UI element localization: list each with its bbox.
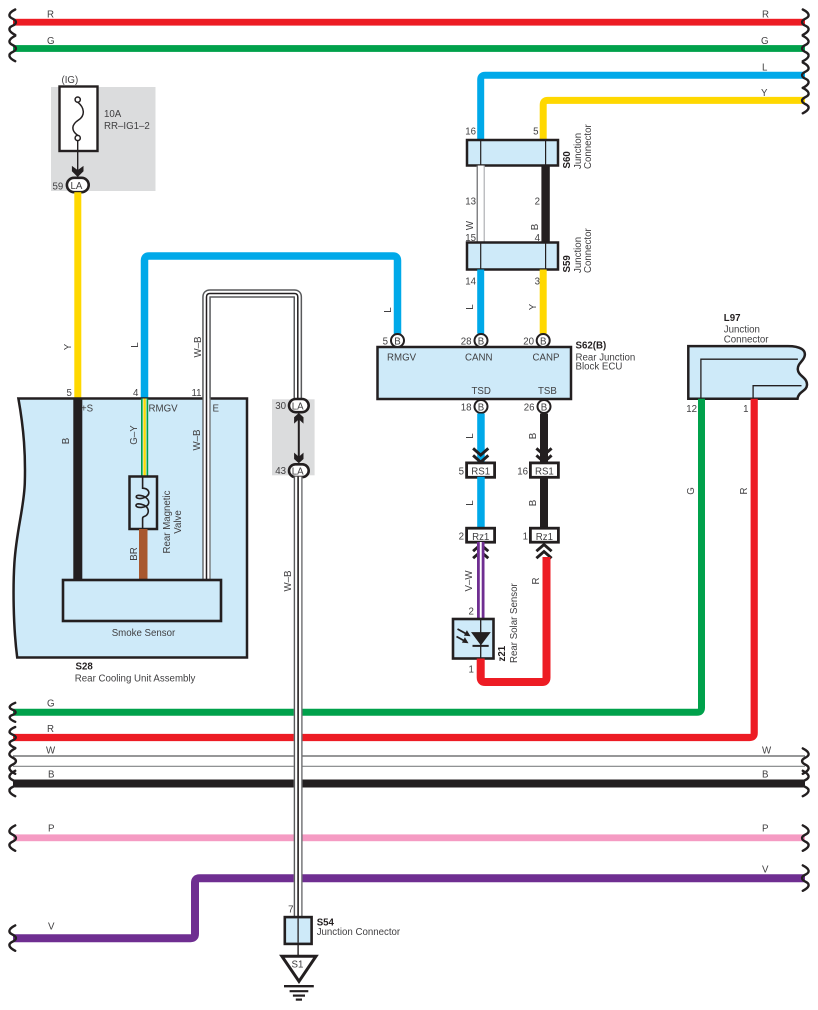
wire P bottom (pink) <box>13 834 805 841</box>
terminal label RMGV <box>387 353 417 364</box>
svg-text:B: B <box>478 336 484 347</box>
wire B inside S28 (black) from +S to smoke sensor <box>73 399 82 582</box>
svg-text:Rear Cooling Unit Assembly: Rear Cooling Unit Assembly <box>75 674 196 685</box>
svg-text:LA: LA <box>292 466 304 477</box>
connector oval LA pin 30 <box>289 399 309 412</box>
chevron arrows up into Rz1 right <box>536 545 551 559</box>
svg-text:S1: S1 <box>292 960 304 971</box>
label B bottom-right <box>762 770 768 781</box>
pin number 1 of z21 <box>469 665 474 676</box>
z21 internal wire <box>480 620 482 658</box>
pin 2 of S60 <box>535 197 540 208</box>
break symbol right of wire L <box>802 63 808 88</box>
svg-text:B: B <box>478 402 484 413</box>
ECU S62(B) body <box>378 347 572 399</box>
svg-text:Y: Y <box>761 88 768 99</box>
pin number 20 <box>523 337 534 348</box>
svg-text:30: 30 <box>275 401 286 412</box>
svg-text:28: 28 <box>461 337 472 348</box>
svg-text:RS1: RS1 <box>471 467 490 478</box>
wire B from TSB 26 down to RS1 (black) <box>540 414 548 464</box>
svg-text:L: L <box>762 63 768 74</box>
svg-text:3: 3 <box>535 277 540 288</box>
pin number 5 <box>459 466 464 477</box>
svg-text:W: W <box>762 746 772 757</box>
pin number 2 of z21 <box>469 607 474 618</box>
pin number 43 <box>275 466 286 477</box>
chevron arrows into RS1 left <box>473 448 488 462</box>
svg-text:V: V <box>48 922 55 933</box>
svg-text:R: R <box>739 488 750 495</box>
label L rotated <box>465 433 476 439</box>
connector oval LA pin 43 <box>289 464 309 477</box>
S28 assembly body <box>14 399 247 658</box>
svg-text:43: 43 <box>275 466 286 477</box>
terminal label E <box>213 404 220 415</box>
svg-text:TSD: TSD <box>472 386 491 397</box>
label R bottom-left <box>47 724 54 735</box>
svg-text:L: L <box>465 500 476 506</box>
terminal label +S <box>81 404 94 415</box>
pin number 2 <box>459 531 464 542</box>
label V bottom-left <box>48 922 55 933</box>
label Y rotated <box>528 303 539 310</box>
svg-text:1: 1 <box>743 404 748 415</box>
break symbol left of wire B bottom <box>9 771 15 796</box>
chevron arrows up into Rz1 left <box>473 545 488 559</box>
svg-text:W–B: W–B <box>193 337 204 358</box>
svg-text:R: R <box>47 724 54 735</box>
svg-text:B: B <box>394 336 400 347</box>
break symbol right of wire W bottom <box>802 748 808 773</box>
label Junction Connector S59 rotated <box>573 228 594 273</box>
svg-text:20: 20 <box>523 337 534 348</box>
connector RS1 pin 16 <box>530 463 558 478</box>
label Y top-right <box>761 88 768 99</box>
label (IG) <box>62 75 79 86</box>
wire L from corner to S62 pin 5 RMGV (blue) <box>145 256 398 399</box>
svg-text:12: 12 <box>686 404 697 415</box>
svg-text:TSB: TSB <box>538 386 557 397</box>
wire Y (yellow) from LA 59 down to S28 pin 5 <box>74 192 81 399</box>
ground triangle S1 <box>282 956 316 981</box>
pin circle B 28 (CANN) <box>475 334 488 347</box>
wire G from L97 pin 12 down to bottom G (green) <box>13 399 702 713</box>
svg-text:L: L <box>383 307 394 313</box>
label Rear Solar Sensor rotated <box>509 583 520 663</box>
svg-text:B: B <box>528 500 539 506</box>
wire B bottom (black) <box>13 780 805 788</box>
label V bottom-right <box>762 865 769 876</box>
wire W-B from LA 43 down to S54 (white w/ black tracer) <box>294 477 303 917</box>
label R top-right <box>762 10 769 21</box>
label P bottom-right <box>762 824 768 835</box>
svg-text:Junction Connector: Junction Connector <box>317 927 401 938</box>
junction connector S59 body <box>467 243 558 270</box>
wire V bottom (violet, steps down to left edge) <box>13 878 805 938</box>
pin 3 of S59 <box>535 277 540 288</box>
svg-text:RMGV: RMGV <box>149 404 179 415</box>
label B rotated <box>528 500 539 506</box>
svg-text:RR–IG1–2: RR–IG1–2 <box>104 121 150 132</box>
photodiode symbol in z21 <box>457 629 490 646</box>
svg-text:5: 5 <box>533 127 538 138</box>
label L rotated <box>465 500 476 506</box>
wire BR brown from valve to smoke sensor <box>139 529 148 581</box>
pin circle B 5 (RMGV) <box>391 334 404 347</box>
svg-text:Smoke Sensor: Smoke Sensor <box>112 628 176 639</box>
wire B between S60 pin2 and S59 pin4 (black) <box>541 166 549 243</box>
svg-text:2: 2 <box>459 531 464 542</box>
wire from fuse to connector LA <box>77 141 79 172</box>
svg-text:BR: BR <box>129 547 140 560</box>
pin 5 of S60 <box>533 127 538 138</box>
label G rotated <box>686 487 697 495</box>
fuse value label 10A RR-IG1-2 <box>104 109 150 132</box>
svg-text:5: 5 <box>383 337 388 348</box>
svg-text:G: G <box>761 36 769 47</box>
pin number 16 <box>517 466 528 477</box>
connector Rz1 pin 2 <box>467 528 495 543</box>
wire W-B loop from S28 pin 11 up over to LA 30 <box>207 294 298 401</box>
label W-B rotated inside S28 <box>192 430 203 451</box>
label Rear Magnetic Valve rotated <box>162 490 184 553</box>
L97 internal bus lines <box>701 359 802 398</box>
break symbol left of wire P bottom <box>9 825 15 850</box>
svg-text:Connector: Connector <box>724 335 769 346</box>
wire Y top (yellow, from right edge to S60 pin 5) <box>543 100 805 140</box>
label L rotated <box>465 304 476 310</box>
svg-text:L97: L97 <box>724 313 741 324</box>
svg-text:B: B <box>528 433 539 439</box>
pin number 26 <box>524 403 535 414</box>
wire R top <box>13 19 805 26</box>
svg-text:RS1: RS1 <box>535 467 554 478</box>
label S59 rotated <box>562 255 573 273</box>
label Smoke Sensor <box>112 628 176 639</box>
svg-text:S60: S60 <box>562 151 573 168</box>
svg-text:CANN: CANN <box>465 353 492 364</box>
break symbol right of wire B bottom <box>802 771 808 796</box>
label V-W rotated <box>464 570 475 592</box>
wire W between S60 pin13 and S59 pin15 (white wire) <box>477 166 485 243</box>
svg-text:V: V <box>762 865 769 876</box>
label S28 / Rear Cooling Unit Assembly <box>75 662 196 685</box>
wire from S54 to ground S1 <box>297 944 299 956</box>
pin number 59 <box>53 182 64 193</box>
pin number 12 of L97 <box>686 404 697 415</box>
svg-text:B: B <box>48 770 54 781</box>
wire L from TSD 18 down to RS1 (blue) <box>477 414 485 464</box>
svg-text:10A: 10A <box>104 109 122 120</box>
svg-text:B: B <box>540 336 546 347</box>
svg-text:16: 16 <box>517 466 528 477</box>
label Junction Connector S60 rotated <box>573 124 594 169</box>
svg-text:59: 59 <box>53 182 64 193</box>
svg-text:13: 13 <box>465 197 476 208</box>
svg-text:P: P <box>48 824 54 835</box>
wire R from L97 pin 1 down to bottom R (red) <box>13 399 754 738</box>
pin number 1 <box>523 531 528 542</box>
svg-text:B: B <box>530 224 541 230</box>
svg-text:W: W <box>46 746 56 757</box>
terminal label RMGV <box>149 404 179 415</box>
svg-text:G–Y: G–Y <box>129 425 140 445</box>
break symbol right of wire P bottom <box>802 825 808 850</box>
double arrow between LA 30 and LA 43 <box>294 413 303 463</box>
junction connector S54 body <box>285 917 312 944</box>
svg-text:E: E <box>213 404 220 415</box>
pin circle B 26 (TSB) <box>538 400 551 413</box>
pin number 30 <box>275 401 286 412</box>
svg-text:LA: LA <box>292 401 304 412</box>
label S60 rotated <box>562 151 573 168</box>
wire Y from S59 pin3 to S62 pin 20 (yellow) <box>540 270 547 334</box>
arrowhead into connector LA <box>72 166 84 177</box>
svg-text:G: G <box>47 36 55 47</box>
svg-text:18: 18 <box>461 403 472 414</box>
svg-text:G: G <box>686 487 697 495</box>
svg-text:RMGV: RMGV <box>387 353 417 364</box>
svg-text:Rz1: Rz1 <box>472 532 489 543</box>
wire L top (blue, from right edge to S60 pin 16) <box>481 75 805 140</box>
fuse element symbol <box>73 97 83 141</box>
break symbol left of wire G bottom <box>10 703 16 722</box>
ground hatch bars <box>284 986 314 999</box>
svg-text:Connector: Connector <box>583 124 594 169</box>
junction connector L97 body <box>688 346 807 399</box>
svg-text:Valve: Valve <box>173 510 184 534</box>
pin number 5 <box>383 337 388 348</box>
svg-text:R: R <box>531 578 542 585</box>
rear solar sensor z21 body <box>453 619 494 659</box>
svg-text:Y: Y <box>63 343 74 350</box>
chevron arrows into RS1 right <box>536 448 551 462</box>
pin number 11 of S28 <box>192 388 202 399</box>
pin 4 of S28 <box>133 388 139 399</box>
connector RS1 pin 5 <box>467 463 495 478</box>
svg-text:R: R <box>762 10 769 21</box>
svg-text:G: G <box>47 699 55 710</box>
svg-text:B: B <box>61 438 72 444</box>
wire V-W violet-white from Rz1 2 to z21 pin 2 <box>477 542 485 619</box>
terminal label TSD <box>472 386 491 397</box>
svg-text:Connector: Connector <box>583 228 594 273</box>
break symbol right of wire V bottom <box>802 865 808 890</box>
label B rotated <box>528 433 539 439</box>
label L top-right <box>762 63 768 74</box>
junction connector S60 body <box>467 140 558 166</box>
svg-text:Rear Magnetic: Rear Magnetic <box>162 490 173 553</box>
label Y rotated <box>63 343 74 350</box>
connector Rz1 pin 1 <box>530 528 558 543</box>
break symbol right of wire Y <box>802 88 808 113</box>
svg-text:S62(B): S62(B) <box>576 341 607 352</box>
svg-text:B: B <box>541 402 547 413</box>
label S54 Junction Connector <box>317 918 401 939</box>
rear magnetic valve body <box>130 477 158 530</box>
pin number 1 of L97 <box>743 404 748 415</box>
valve coil symbol <box>136 478 149 529</box>
svg-text:5: 5 <box>459 466 464 477</box>
pin 15 of S59 <box>465 233 476 244</box>
label W-B rotated on long wire <box>283 571 294 592</box>
svg-text:(IG): (IG) <box>62 75 79 86</box>
connector oval LA pin 59 <box>67 178 89 192</box>
label z21 rotated <box>497 645 508 661</box>
svg-text:L: L <box>130 342 141 348</box>
svg-text:z21: z21 <box>497 645 508 661</box>
svg-text:2: 2 <box>535 197 540 208</box>
ECU label S62(B) Rear Junction Block ECU <box>576 341 636 373</box>
label B bottom-left <box>48 770 54 781</box>
label R top-left <box>47 10 54 21</box>
label G-Y rotated <box>129 425 140 445</box>
svg-text:W–B: W–B <box>283 571 294 592</box>
terminal label CANP <box>533 353 560 364</box>
break symbol left of wire W bottom <box>9 748 15 773</box>
break symbol right of wire G <box>802 36 808 61</box>
wire W bottom (white, double line) <box>13 756 805 766</box>
pin number 7 of S54 <box>288 905 293 916</box>
break symbol left of wire R bottom <box>10 727 16 748</box>
svg-text:L: L <box>465 433 476 439</box>
wire B from RS1 to Rz1 (black) <box>540 477 548 529</box>
svg-text:LA: LA <box>71 181 83 192</box>
label W bottom-right <box>762 746 772 757</box>
break symbol right of wire R <box>802 10 808 35</box>
svg-text:P: P <box>762 824 768 835</box>
svg-text:L: L <box>465 304 476 310</box>
label P bottom-left <box>48 824 54 835</box>
smoke sensor body <box>63 580 221 621</box>
label L rotated left leg <box>130 342 141 348</box>
gray panel around LA 30/43 <box>272 399 315 475</box>
svg-text:CANP: CANP <box>533 353 560 364</box>
terminal label TSB <box>538 386 557 397</box>
label BR rotated <box>129 547 140 560</box>
svg-text:Rear Solar Sensor: Rear Solar Sensor <box>509 583 520 663</box>
label W rotated <box>465 220 476 230</box>
break symbol left of wire G <box>9 36 15 61</box>
pin 16 of S60 <box>465 127 476 138</box>
label G top-left <box>47 36 55 47</box>
svg-text:7: 7 <box>288 905 293 916</box>
label W bottom-left <box>46 746 56 757</box>
svg-text:S59: S59 <box>562 255 573 273</box>
wire L from S59 pin14 to S62 pin 28 (blue) <box>477 270 484 334</box>
pin number 5 of S28 <box>67 388 72 399</box>
svg-text:11: 11 <box>192 388 202 399</box>
svg-text:16: 16 <box>465 127 476 138</box>
svg-text:14: 14 <box>465 277 476 288</box>
pin number 28 <box>461 337 472 348</box>
pin 4 of S59 <box>535 233 541 244</box>
label W-B rotated on loop left leg <box>193 337 204 358</box>
svg-text:2: 2 <box>469 607 474 618</box>
pin number 18 <box>461 403 472 414</box>
svg-text:V–W: V–W <box>464 570 475 592</box>
svg-text:Block ECU: Block ECU <box>576 362 623 373</box>
label R rotated <box>531 578 542 585</box>
svg-text:W–B: W–B <box>192 430 203 451</box>
svg-text:1: 1 <box>523 531 528 542</box>
svg-text:Y: Y <box>528 303 539 310</box>
svg-text:S28: S28 <box>76 662 94 673</box>
svg-text:+S: +S <box>81 404 94 415</box>
label G bottom-left <box>47 699 55 710</box>
label R rotated <box>739 488 750 495</box>
label B rotated <box>61 438 72 444</box>
svg-text:R: R <box>47 10 54 21</box>
fuse holder gray panel <box>51 87 156 191</box>
label G top-right <box>761 36 769 47</box>
svg-text:B: B <box>762 770 768 781</box>
pin 13 of S60 <box>465 197 476 208</box>
label L97 Junction Connector <box>724 313 769 346</box>
label L rotated right leg <box>383 307 394 313</box>
svg-text:Rz1: Rz1 <box>536 532 553 543</box>
wire G-Y green-yellow from RMGV to valve <box>141 399 148 478</box>
fuse RR-IG1-2 body <box>60 87 98 152</box>
wire G top <box>13 45 805 52</box>
wire R from z21 pin 1 to Rz1 1 (red) <box>481 557 547 682</box>
label B rotated <box>530 224 541 230</box>
break symbol left of wire R <box>9 10 15 35</box>
svg-text:W: W <box>465 220 476 230</box>
pin circle B 18 (TSD) <box>475 400 488 413</box>
pin circle B 20 (CANP) <box>537 334 550 347</box>
pin 14 of S59 <box>465 277 476 288</box>
terminal label CANN <box>465 353 492 364</box>
wire L from RS1 to Rz1 (blue) <box>477 477 485 529</box>
svg-text:1: 1 <box>469 665 474 676</box>
svg-text:26: 26 <box>524 403 535 414</box>
break symbol left of wire V bottom <box>9 925 15 950</box>
wire W-B inside S28 from E to smoke sensor (white w/ black tracer) <box>203 399 211 582</box>
